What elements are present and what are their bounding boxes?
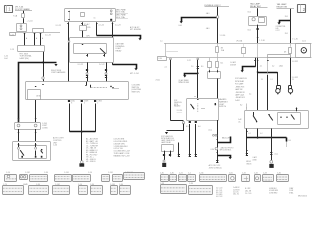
svg-text:2-C-22: 2-C-22	[56, 25, 62, 27]
svg-text:7.5A: 7.5A	[13, 15, 18, 18]
svg-text:CONNECTOR:: CONNECTOR:	[276, 26, 287, 28]
svg-text:2-1: 2-1	[261, 79, 263, 81]
svg-text:C9-1: C9-1	[247, 30, 251, 32]
svg-text:1 C-30: 1 C-30	[220, 35, 226, 37]
svg-text:NO.3 7.5A: NO.3 7.5A	[116, 11, 125, 14]
svg-text:2-1 C-30: 2-1 C-30	[216, 188, 222, 190]
svg-text:H2 - GND E: H2 - GND E	[86, 161, 96, 163]
svg-text:2-1: 2-1	[292, 79, 294, 81]
svg-text:2-C-22: 2-C-22	[99, 25, 105, 27]
svg-text:C-30: C-30	[158, 58, 162, 60]
svg-text:C-30: C-30	[210, 149, 214, 151]
svg-text:2-2 GND: 2-2 GND	[216, 194, 223, 196]
svg-text:C-06: C-06	[53, 145, 57, 147]
svg-text:2/13-1: 2/13-1	[156, 80, 161, 82]
svg-text:8-1: 8-1	[201, 66, 204, 68]
svg-text:1 C-30: 1 C-30	[292, 38, 297, 40]
svg-text:C-10: C-10	[6, 172, 10, 174]
svg-text:4-1 C-31: 4-1 C-31	[216, 190, 222, 192]
svg-text:C-102: C-102	[25, 172, 30, 174]
svg-text:2: 2	[97, 102, 98, 104]
svg-text:4-2 C-33: 4-2 C-33	[216, 196, 222, 198]
svg-text:1-B: 1-B	[288, 140, 290, 142]
svg-text:SWITCH): SWITCH)	[132, 92, 140, 94]
svg-text:J-1: J-1	[160, 41, 163, 43]
svg-text:MFI CONTROL: MFI CONTROL	[220, 150, 232, 152]
svg-text:C-101: C-101	[108, 172, 113, 174]
svg-text:RELAY: RELAY	[116, 50, 123, 53]
svg-text:0.5RB RED: 0.5RB RED	[269, 192, 278, 194]
svg-text:B-1: B-1	[221, 62, 224, 64]
svg-text:(F) 10A: (F) 10A	[237, 40, 244, 43]
svg-text:0.85L: 0.85L	[71, 100, 75, 102]
svg-text:28-1: 28-1	[285, 16, 288, 18]
svg-text:FOR VEHICLES: FOR VEHICLES	[235, 78, 247, 80]
svg-text:1/(F): 1/(F)	[86, 35, 90, 37]
svg-text:CONN.: CONN.	[42, 127, 48, 129]
svg-text:8-1 C-32: 8-1 C-32	[216, 192, 222, 194]
svg-text:C-22: C-22	[10, 34, 14, 36]
svg-text:JOINT CONN (4): JOINT CONN (4)	[209, 168, 222, 170]
svg-text:8: 8	[71, 102, 72, 104]
svg-text:E-6: E-6	[198, 126, 201, 128]
svg-text:C-217: C-217	[276, 30, 280, 32]
svg-text:28-1 J/C: 28-1 J/C	[233, 194, 240, 196]
svg-text:B-1 RR: B-1 RR	[245, 188, 251, 190]
svg-text:MR-T02010: MR-T02010	[298, 196, 307, 198]
svg-text:C-101: C-101	[64, 172, 69, 174]
svg-text:(2-1): (2-1)	[209, 129, 213, 131]
svg-text:2-C-22: 2-C-22	[99, 64, 105, 66]
svg-text:4-1: 4-1	[260, 65, 262, 67]
svg-text:C-22: C-22	[187, 60, 191, 62]
svg-text:28-1: 28-1	[285, 33, 288, 35]
svg-text:2-1: 2-1	[191, 66, 194, 68]
svg-text:GND B: GND B	[246, 164, 251, 166]
svg-text:1M 30: 1M 30	[36, 95, 41, 97]
svg-text:GRAY: GRAY	[23, 183, 29, 186]
svg-text:1-C-32: 1-C-32	[45, 34, 51, 36]
svg-text:C-D LIC: C-D LIC	[233, 192, 240, 194]
svg-text:WITH: WITH	[174, 104, 178, 106]
svg-text:4-2: 4-2	[272, 65, 274, 67]
svg-text:2-C-30: 2-C-30	[177, 110, 183, 112]
svg-text:nn: nn	[94, 17, 96, 19]
svg-text:C-30: C-30	[189, 183, 193, 185]
svg-text:LAMP (RH): LAMP (RH)	[20, 57, 30, 60]
svg-text:2-1 C-30: 2-1 C-30	[245, 193, 251, 195]
svg-text:8-2: 8-2	[240, 105, 242, 107]
svg-text:MR-02: MR-02	[246, 161, 251, 163]
svg-text:4-2: 4-2	[260, 133, 262, 135]
svg-text:(2-1): (2-1)	[275, 154, 279, 156]
svg-text:E-5: E-5	[186, 126, 189, 128]
svg-text:VEHICLES: VEHICLES	[174, 102, 182, 104]
svg-text:JOINT HARNESS: JOINT HARNESS	[51, 71, 66, 74]
svg-text:C-13: C-13	[10, 49, 14, 51]
svg-text:0.5GW GRN: 0.5GW GRN	[269, 190, 279, 192]
svg-text:C9-1: C9-1	[247, 11, 251, 13]
svg-text:C-D2: C-D2	[302, 41, 306, 43]
svg-text:0.85B BLK: 0.85B BLK	[269, 188, 278, 190]
svg-text:BACK-UP: BACK-UP	[222, 136, 230, 139]
svg-text:2-C-23: 2-C-23	[115, 25, 121, 27]
svg-text:J-04: J-04	[4, 58, 8, 60]
svg-text:2-1: 2-1	[270, 79, 272, 81]
svg-text:FOR VEHICLES: FOR VEHICLES	[161, 136, 173, 138]
svg-text:C-B BOX: C-B BOX	[233, 189, 240, 191]
svg-text:1 C-30: 1 C-30	[259, 40, 264, 42]
svg-text:4-2: 4-2	[248, 133, 250, 135]
svg-text:JA-1: JA-1	[206, 12, 210, 15]
svg-text:4-1: 4-1	[249, 93, 251, 95]
svg-text:5: 5	[84, 102, 85, 104]
svg-text:A/T: F.A.S.T.: A/T: F.A.S.T.	[130, 26, 140, 29]
svg-text:1-C-D22: 1-C-D22	[292, 61, 298, 63]
svg-text:WINDOW DEF: WINDOW DEF	[179, 82, 190, 84]
svg-text:M/T: ENGINE: M/T: ENGINE	[130, 29, 142, 31]
svg-text:HAZARD SW C-209: HAZARD SW C-209	[114, 154, 130, 157]
svg-text:C-10: C-10	[88, 172, 92, 174]
svg-text:C-30: C-30	[44, 172, 48, 174]
svg-text:2-C-22: 2-C-22	[78, 64, 84, 66]
svg-text:0.85GW: 0.85GW	[230, 64, 236, 66]
svg-text:JA-1: JA-1	[206, 27, 210, 30]
svg-text:2-C-D22: 2-C-D22	[292, 77, 298, 79]
svg-text:0.85G: 0.85G	[98, 100, 103, 102]
svg-text:M/T: C-114: M/T: C-114	[130, 73, 139, 75]
svg-text:2-1: 2-1	[165, 66, 168, 68]
svg-text:SWITCH: SWITCH	[219, 106, 227, 108]
svg-text:0.85B: 0.85B	[252, 160, 256, 162]
svg-text:nn: nn	[194, 96, 196, 98]
svg-text:+ C-10: + C-10	[27, 20, 34, 22]
